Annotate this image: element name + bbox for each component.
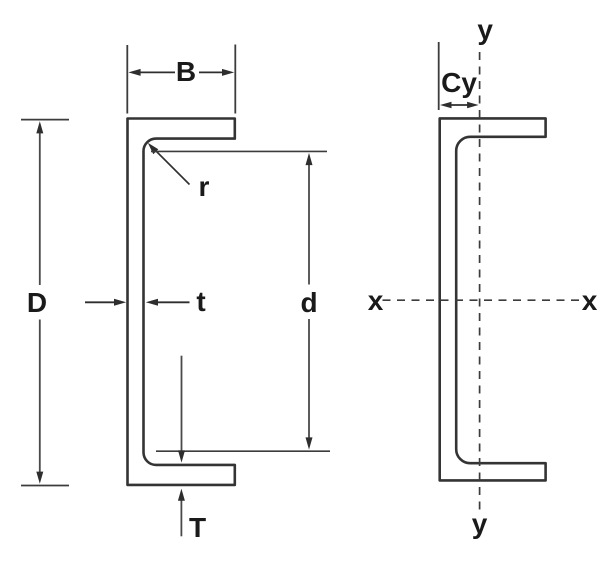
extension line Cy	[438, 42, 440, 110]
extension line D top	[21, 119, 69, 121]
svg-text:d: d	[300, 287, 317, 318]
dimension T lower arrow	[180, 500, 182, 536]
svg-text:t: t	[196, 286, 205, 317]
svg-text:x: x	[368, 285, 384, 316]
svg-text:B: B	[176, 56, 196, 87]
dimension D line upper	[39, 133, 41, 285]
extension line d top	[151, 150, 327, 152]
dimension B left arrow	[140, 71, 175, 73]
axis x dashed line	[383, 299, 580, 301]
svg-text:Cy: Cy	[441, 67, 477, 98]
dimension D line lower	[39, 320, 41, 473]
dimension d line upper	[308, 164, 310, 285]
leader arrow r	[156, 151, 190, 185]
svg-text:y: y	[477, 14, 493, 45]
channel section right outline	[440, 118, 546, 480]
dimension T upper arrow	[181, 356, 183, 451]
dimension d line lower	[308, 319, 310, 438]
extension line D bottom	[21, 485, 69, 487]
extension line B left	[126, 45, 128, 114]
svg-text:x: x	[582, 285, 598, 316]
svg-text:T: T	[189, 512, 206, 543]
svg-text:D: D	[27, 287, 47, 318]
extension line d bottom	[156, 450, 330, 452]
svg-text:r: r	[199, 171, 210, 202]
channel section left outline	[128, 119, 235, 485]
dimension t right arrow	[158, 301, 190, 303]
svg-text:y: y	[472, 508, 488, 539]
extension line B right	[234, 45, 236, 114]
dimension t left arrow	[85, 301, 115, 303]
dimension B right arrow	[199, 71, 223, 73]
axis y dashed line	[479, 52, 481, 514]
dimension Cy double arrow	[449, 104, 469, 106]
